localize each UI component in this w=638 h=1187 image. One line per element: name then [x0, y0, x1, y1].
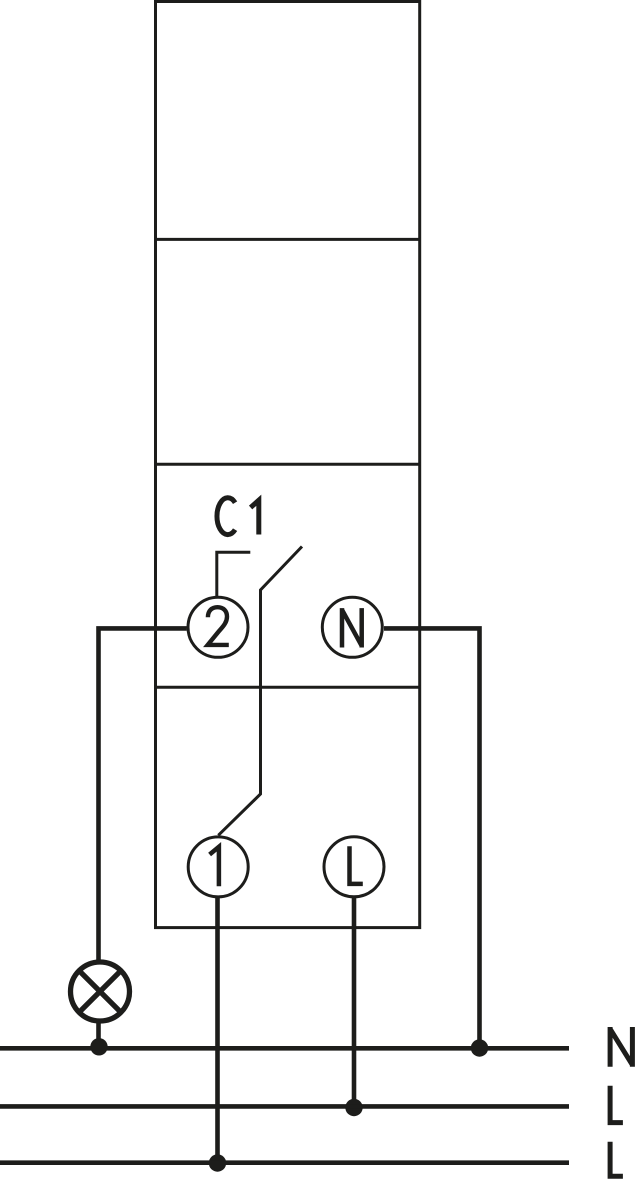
junction dot lamp-N: [90, 1038, 107, 1055]
net label L bottom: [610, 1142, 623, 1177]
lamp E1 cross: [79, 971, 121, 1013]
terminal 1 circle: [188, 837, 248, 897]
wire terminal N to N bus: [384, 628, 480, 1048]
net label N: [610, 1027, 632, 1067]
terminal 2 digit: [208, 607, 229, 645]
junction dot 1-wire: [209, 1154, 226, 1171]
junction dot L-wire: [345, 1099, 362, 1116]
device section divider 3: [154, 686, 421, 689]
terminal 2 circle: [188, 597, 248, 657]
terminal N letter: [342, 608, 362, 647]
switch blade: [218, 547, 302, 836]
bus line L bottom: [0, 1160, 569, 1165]
lamp E1 circle: [71, 962, 130, 1021]
bus line N: [0, 1046, 569, 1051]
contact C1 fixed bracket: [217, 552, 251, 598]
label C1: [217, 498, 259, 535]
device section divider 2: [154, 463, 421, 466]
bus line L middle: [0, 1104, 569, 1109]
device outline U1: [156, 2, 420, 928]
wire terminal 2 to lamp: [99, 628, 187, 961]
wire terminal 1 to bottom L bus: [215, 898, 220, 1164]
terminal L letter: [350, 846, 363, 884]
terminal L circle: [324, 837, 384, 897]
terminal 1 digit: [210, 847, 219, 887]
device section divider 1: [154, 238, 421, 241]
wire lamp to N bus: [96, 1022, 101, 1047]
net label L middle: [610, 1086, 623, 1123]
terminal N circle: [322, 597, 382, 657]
wire terminal L to L bus: [352, 897, 357, 1107]
junction dot N-wire: [471, 1039, 488, 1056]
